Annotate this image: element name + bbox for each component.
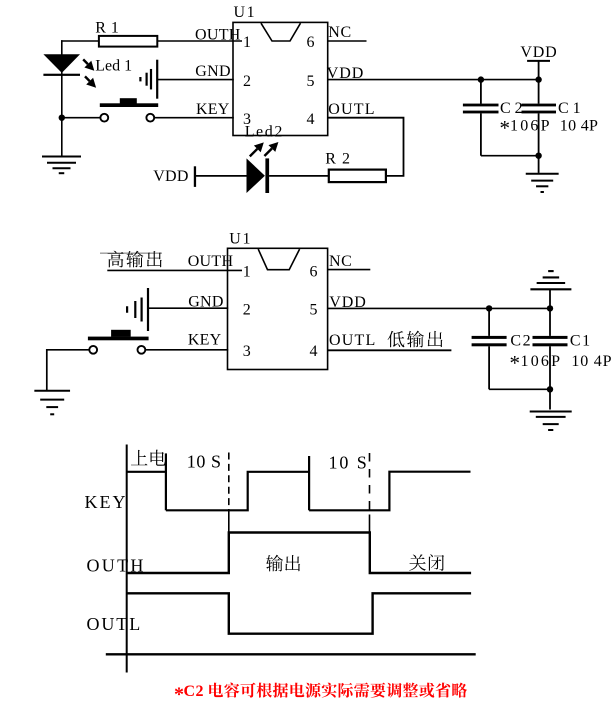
pushbutton S1 left contact (top) xyxy=(100,114,108,122)
timing dashed marker 2 xyxy=(369,453,371,515)
ground (bottom left, middle) xyxy=(34,390,70,392)
svg-text:2: 2 xyxy=(243,73,251,90)
svg-text:C 1: C 1 xyxy=(558,100,581,117)
wire button to ground corner (middle) xyxy=(47,350,89,391)
timing dashed marker 1 xyxy=(228,453,230,510)
svg-text:5: 5 xyxy=(307,73,315,90)
svg-text:5: 5 xyxy=(310,301,318,318)
node junction C1/VDD (top) xyxy=(535,76,541,82)
svg-text:106P: 106P xyxy=(521,353,563,370)
LED Led2 arrows xyxy=(250,149,257,156)
label 上电 xyxy=(131,450,166,466)
wire OUTL pin4 (middle) xyxy=(328,349,452,351)
svg-text:OUTL: OUTL xyxy=(328,101,375,118)
LED Led1 arrows xyxy=(83,59,88,64)
capacitor C1 (middle) xyxy=(549,308,551,336)
ground (top left) xyxy=(42,156,81,158)
svg-text:C2: C2 xyxy=(510,332,532,349)
OUTL waveform xyxy=(127,593,471,633)
node junction C2 (top) xyxy=(478,76,484,82)
net label 高输出 (middle) xyxy=(108,251,162,268)
svg-text:R 2: R 2 xyxy=(325,151,351,168)
capacitor C2 (middle) xyxy=(488,308,490,336)
svg-text:KEY: KEY xyxy=(188,331,222,348)
svg-text:1: 1 xyxy=(243,34,251,51)
svg-text:NC: NC xyxy=(328,24,351,41)
ground (below caps, top) xyxy=(526,173,559,175)
IC U1 notch (top) xyxy=(261,23,301,41)
pushbutton S2 bar (middle) xyxy=(88,337,149,341)
svg-text:R 1: R 1 xyxy=(95,19,119,36)
LED Led1 cathode bar xyxy=(43,74,80,76)
svg-text:GND: GND xyxy=(195,63,231,80)
wire NC pin6 (middle) xyxy=(328,269,371,271)
svg-text:*: * xyxy=(510,351,521,375)
node junction C1/ground (middle) xyxy=(547,305,553,311)
svg-text:3: 3 xyxy=(243,343,251,360)
svg-text:OUTH: OUTH xyxy=(188,253,234,270)
artifact gray line above 高输出 xyxy=(100,252,162,254)
ground (below caps, middle) xyxy=(530,411,572,413)
svg-text:NC: NC xyxy=(329,253,352,270)
svg-text:U1: U1 xyxy=(234,4,257,21)
net label 低输出 (middle) xyxy=(388,331,443,348)
pushbutton S2 left contact (middle) xyxy=(89,346,97,354)
svg-text:10 S: 10 S xyxy=(329,453,369,473)
wire KEY pin3 (middle) xyxy=(146,349,228,351)
wire junction to button (top) xyxy=(62,117,100,119)
svg-text:Led 1: Led 1 xyxy=(95,58,132,75)
OUTH waveform xyxy=(127,533,471,574)
capacitor C2 (top) xyxy=(480,80,482,104)
wire OUTL pin4 to R2 (top) xyxy=(328,118,404,176)
pushbutton S2 actuator (middle) xyxy=(111,330,131,337)
svg-text:4: 4 xyxy=(310,343,318,360)
svg-text:OUTL: OUTL xyxy=(87,614,143,634)
KEY waveform xyxy=(127,471,166,473)
IC U1 (middle) xyxy=(228,248,328,369)
pushbutton S1 right contact (top) xyxy=(146,114,154,122)
wire KEY pin3 (top) xyxy=(155,117,234,119)
timing vertical axis xyxy=(126,445,128,673)
svg-text:VDD: VDD xyxy=(520,44,557,61)
LED Led1 anode wire xyxy=(61,40,63,118)
wire OUTH pin1 (top) xyxy=(157,40,242,42)
svg-text:106P: 106P xyxy=(510,118,552,135)
node junction C bottoms (middle) xyxy=(547,386,553,392)
svg-text:6: 6 xyxy=(307,34,315,51)
IC U1 (top) xyxy=(233,22,328,135)
power VDD terminal (Led2) xyxy=(194,166,196,187)
ground (inverted, above C1, middle) xyxy=(530,288,571,290)
svg-text:U1: U1 xyxy=(229,231,252,248)
pushbutton S2 right contact (middle) xyxy=(138,346,146,354)
LED Led1 cathode to ground wire xyxy=(61,118,63,157)
pushbutton S1 bar (top) xyxy=(100,103,158,107)
capacitor C1 (top) xyxy=(538,80,540,104)
svg-text:KEY: KEY xyxy=(85,492,128,512)
svg-text:4: 4 xyxy=(307,111,315,128)
node junction LED1/KEY (top) xyxy=(59,115,65,121)
wire VDD pin5 (top) xyxy=(328,79,539,81)
wire VDD to LED2 xyxy=(196,175,247,177)
svg-text:C2: C2 xyxy=(184,683,205,700)
label 关闭 xyxy=(409,554,444,571)
label 输出 xyxy=(266,555,300,572)
svg-text:1: 1 xyxy=(243,264,251,281)
svg-text:2: 2 xyxy=(243,301,251,318)
svg-text:Led2: Led2 xyxy=(245,124,284,141)
node junction C bottoms (top) xyxy=(535,153,541,159)
timing bottom axis xyxy=(106,653,476,655)
wire R1 to LED1 (top) xyxy=(61,40,99,42)
wire OUTH pin1 (middle) xyxy=(107,269,242,271)
ground (GND pin sideways, top) xyxy=(156,60,158,99)
wire VDD pin5 (middle) xyxy=(328,307,550,309)
svg-text:*: * xyxy=(500,116,511,140)
wire GND pin2 (middle) xyxy=(148,307,228,309)
ground (GND pin sideways, middle) xyxy=(147,288,149,331)
node junction C2 (middle) xyxy=(486,305,492,311)
svg-text:VDD: VDD xyxy=(153,168,189,185)
resistor R2 xyxy=(329,170,386,183)
svg-text:C 2: C 2 xyxy=(500,100,523,117)
svg-text:6: 6 xyxy=(310,264,318,281)
LED Led2 cathode bar xyxy=(265,158,269,193)
LED Led2 triangle xyxy=(247,158,265,193)
svg-text:OUTL: OUTL xyxy=(329,332,376,349)
svg-text:C1: C1 xyxy=(570,332,592,349)
resistor R1 xyxy=(99,36,157,47)
svg-text:10 4P: 10 4P xyxy=(571,353,612,370)
LED Led1 triangle xyxy=(43,54,80,73)
svg-text:*: * xyxy=(174,683,184,705)
svg-text:KEY: KEY xyxy=(196,101,230,118)
wire C2 bottom to C1 (top) xyxy=(481,155,539,157)
IC U1 notch (middle) xyxy=(258,249,299,270)
svg-text:10 S: 10 S xyxy=(187,452,222,472)
wire GND pin2 (top) xyxy=(158,79,234,81)
svg-text:10 4P: 10 4P xyxy=(560,118,598,135)
wire NC pin6 (top) xyxy=(328,40,367,42)
wire LED2 to R2 xyxy=(269,175,329,177)
pushbutton S1 actuator (top) xyxy=(120,98,137,103)
wire C2 bottom to C1 (middle) xyxy=(489,388,550,390)
